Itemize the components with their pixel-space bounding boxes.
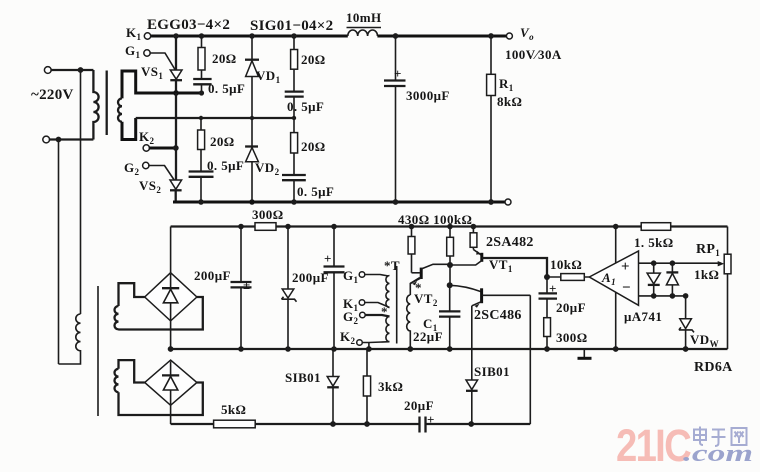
svg-text:*: * xyxy=(381,304,388,319)
capacitor 0.5uF snubber2 xyxy=(285,92,325,118)
wire opamp plus input xyxy=(639,262,722,264)
svg-text:VT1: VT1 xyxy=(489,257,513,274)
terminal G2 xyxy=(124,160,149,177)
pulse transformer terminal G1 xyxy=(343,268,365,285)
wire G1 gate xyxy=(149,53,175,70)
terminal G1 xyxy=(125,43,150,60)
svg-text:20μF: 20μF xyxy=(556,300,586,315)
wire mains drop left xyxy=(58,140,60,365)
transformer T1 primary xyxy=(93,70,98,140)
wire G2 gate xyxy=(148,166,174,181)
svg-text:3000μF: 3000μF xyxy=(406,88,450,103)
wire rail secondary lower xyxy=(136,117,296,119)
svg-text:+: + xyxy=(427,412,435,427)
transformer T1 core xyxy=(106,71,108,136)
svg-text:RP1: RP1 xyxy=(696,242,720,258)
svg-text:3kΩ: 3kΩ xyxy=(378,379,403,394)
svg-text:EGG03−4×2: EGG03−4×2 xyxy=(147,17,230,33)
terminal K2 xyxy=(139,129,155,151)
svg-text:8kΩ: 8kΩ xyxy=(497,94,522,109)
capacitor 200uF no1 xyxy=(194,227,252,350)
svg-text:21IC: 21IC xyxy=(616,420,691,471)
resistor 20ohm snubber1 xyxy=(198,36,237,79)
svg-text:+: + xyxy=(324,251,332,266)
svg-text:K2: K2 xyxy=(340,329,356,346)
ground xyxy=(578,349,592,358)
svg-text:Vo: Vo xyxy=(520,25,534,42)
svg-text:2SA482: 2SA482 xyxy=(486,235,534,250)
svg-text:VS1: VS1 xyxy=(141,64,163,81)
pulse transformer winding a xyxy=(386,276,390,308)
transformer T2 secondary1 top lead xyxy=(119,283,145,306)
svg-text:1kΩ: 1kΩ xyxy=(694,267,719,282)
potentiometer RP1 xyxy=(694,227,731,350)
svg-text:VT2: VT2 xyxy=(414,291,438,308)
svg-text:VS2: VS2 xyxy=(139,178,161,195)
wire bottom aux rail xyxy=(171,423,531,425)
node mains top xyxy=(78,67,84,73)
svg-text:200μF: 200μF xyxy=(292,270,329,285)
svg-text:*T: *T xyxy=(384,258,400,273)
svg-text:+: + xyxy=(394,66,402,81)
terminal 220V top xyxy=(44,67,93,74)
resistor 20ohm snubber3 xyxy=(198,118,235,172)
wire K1 to winding xyxy=(364,303,389,308)
svg-text:VD2: VD2 xyxy=(255,160,280,177)
thyristor VS2 xyxy=(139,93,182,202)
svg-text:SIB01: SIB01 xyxy=(285,370,321,385)
wire B2 minus down xyxy=(170,405,172,424)
transformer T1 secondary winding xyxy=(118,98,122,121)
svg-text:SIB01: SIB01 xyxy=(474,364,510,379)
diode VD2 xyxy=(245,118,279,202)
wire mains drop right xyxy=(80,70,82,314)
pulse transformer terminal G2 xyxy=(343,309,365,326)
svg-text:0. 5μF: 0. 5μF xyxy=(207,158,244,173)
wire B1 plus up xyxy=(170,227,172,273)
wire G2 to winding xyxy=(365,315,390,317)
svg-text:SIG01−04×2: SIG01−04×2 xyxy=(250,18,333,34)
diode limiter b xyxy=(666,263,678,296)
wire G1 to winding xyxy=(364,275,388,277)
watermark dianziwang xyxy=(694,427,747,447)
wire VT1 collector node xyxy=(544,274,550,280)
resistor 20ohm snubber4 xyxy=(291,118,326,175)
svg-text:20Ω: 20Ω xyxy=(210,134,235,149)
pulse transformer winding c xyxy=(407,295,411,349)
svg-text:~220V: ~220V xyxy=(31,87,74,103)
svg-text:2SC486: 2SC486 xyxy=(474,308,522,323)
node mains bottom xyxy=(56,137,62,143)
capacitor 3000uF xyxy=(384,36,450,202)
svg-text:0. 5μF: 0. 5μF xyxy=(208,81,245,96)
resistor 5kohm xyxy=(214,402,256,428)
zener diode regulator xyxy=(282,227,297,350)
transistor VT1 xyxy=(450,250,547,278)
transformer T2 aux primary winding xyxy=(59,314,81,364)
svg-text:G1: G1 xyxy=(125,43,141,60)
svg-text:VD1: VD1 xyxy=(256,68,281,85)
thyristor VS1 xyxy=(141,36,182,93)
svg-text:G2: G2 xyxy=(124,160,140,177)
wire opamp minus input xyxy=(639,295,687,297)
transistor VT2 xyxy=(410,264,450,285)
svg-text:10mH: 10mH xyxy=(346,10,382,25)
transformer T2 secondary1 bottom lead xyxy=(119,297,203,330)
diode limiter a xyxy=(647,263,660,296)
capacitor 0.5uF snubber1 xyxy=(193,79,245,96)
wire 2SC486 collector drop xyxy=(529,295,531,424)
svg-text:20Ω: 20Ω xyxy=(212,51,237,66)
svg-text:+: + xyxy=(621,259,630,275)
svg-text:1. 5kΩ: 1. 5kΩ xyxy=(634,235,674,250)
svg-text:K1: K1 xyxy=(126,25,142,42)
resistor 300ohm opamp xyxy=(544,318,588,349)
wire K2 to winding and rail xyxy=(362,342,390,349)
wire VS1 cathode to snubber xyxy=(176,92,202,95)
bridge rectifier B1 xyxy=(145,273,197,321)
node VT1 base xyxy=(447,262,453,268)
node VS1 cathode xyxy=(173,33,179,39)
wire B1 minus down xyxy=(170,321,172,349)
svg-text:0. 5μF: 0. 5μF xyxy=(297,184,334,199)
resistor R1 8k xyxy=(487,36,523,202)
wire regulator top rail xyxy=(171,225,728,227)
capacitor 20uF opamp xyxy=(539,277,586,318)
resistor 20ohm snubber2 xyxy=(291,36,326,92)
svg-text:+: + xyxy=(549,281,557,296)
resistor 1.5kohm xyxy=(634,223,674,250)
svg-text:20Ω: 20Ω xyxy=(301,139,326,154)
node 2SC486 base xyxy=(447,282,453,288)
wire top rail K1 bus xyxy=(150,35,509,38)
pulse transformer core xyxy=(396,266,398,344)
wire VT2 collector drop xyxy=(449,265,451,285)
svg-text:−: − xyxy=(622,280,631,296)
terminal out bottom xyxy=(505,199,511,205)
svg-text:20Ω: 20Ω xyxy=(301,52,326,67)
transformer T2 secondary2 top lead xyxy=(119,360,145,382)
resistor collector VT1 xyxy=(470,227,477,250)
resistor 10kohm xyxy=(547,257,589,280)
svg-text:430Ω 100kΩ: 430Ω 100kΩ xyxy=(398,212,472,227)
terminal K1 xyxy=(126,25,151,42)
transformer T1 secondary bottom lead xyxy=(122,118,136,140)
svg-text:10kΩ: 10kΩ xyxy=(550,257,582,272)
resistor 430ohm xyxy=(408,227,415,273)
svg-text:μA741: μA741 xyxy=(624,309,662,324)
resistor 100kohm xyxy=(447,227,454,266)
capacitor 20uF series xyxy=(404,398,435,433)
svg-text:RD6A: RD6A xyxy=(694,360,733,375)
transformer T1 secondary top lead xyxy=(122,71,176,98)
svg-text:5kΩ: 5kΩ xyxy=(221,402,246,417)
svg-text:300Ω: 300Ω xyxy=(252,207,284,222)
svg-text:±: ± xyxy=(243,277,251,292)
wire mid rail xyxy=(171,348,728,350)
capacitor 200uF no2 xyxy=(292,227,345,350)
svg-text:K2: K2 xyxy=(139,129,155,146)
op-amp A1 uA741 xyxy=(589,251,662,324)
svg-text:200μF: 200μF xyxy=(194,268,231,283)
pulse transformer terminal K1 xyxy=(343,296,365,313)
pulse transformer winding b xyxy=(386,317,390,342)
resistor 300ohm series xyxy=(252,207,284,230)
transformer T2 secondary1 winding xyxy=(115,306,119,329)
capacitor C1 22uF xyxy=(413,285,460,349)
inductor 10mH xyxy=(346,10,382,36)
transistor 2SC486 xyxy=(450,285,531,323)
transformer T2 secondary2 winding xyxy=(115,369,119,392)
transformer T2 secondary2 bottom lead xyxy=(119,383,203,416)
svg-text:300Ω: 300Ω xyxy=(556,330,588,345)
terminal Vo xyxy=(505,25,562,62)
wire winding c to VT2 emitter xyxy=(410,278,420,296)
capacitor 0.5uF snubber4 xyxy=(282,175,334,202)
svg-text:100V∕30A: 100V∕30A xyxy=(505,47,562,62)
svg-text:VDW: VDW xyxy=(690,332,719,349)
svg-text:22μF: 22μF xyxy=(413,329,443,344)
diode SIB01 a xyxy=(285,349,339,424)
wire opamp supply xyxy=(615,227,617,350)
wiper arrow RP1 xyxy=(718,261,725,266)
capacitor 0.5uF snubber3 xyxy=(189,158,245,202)
diode VD1 xyxy=(245,36,281,118)
svg-text:0. 5μF: 0. 5μF xyxy=(287,99,324,114)
resistor 3kohm xyxy=(363,349,403,424)
svg-text:G1: G1 xyxy=(343,268,359,285)
wire 2SC486 emitter drop xyxy=(471,306,473,380)
wire bottom rail of SCR section xyxy=(173,201,508,204)
svg-text:.com: .com xyxy=(683,441,753,467)
pulse transformer terminal K2 xyxy=(340,329,362,346)
zener VDW xyxy=(679,296,719,349)
transformer T2 core xyxy=(97,286,99,416)
wire K2 xyxy=(149,147,176,150)
svg-text:R1: R1 xyxy=(499,76,514,93)
terminal 220V bottom xyxy=(43,136,94,143)
diode SIB01 b xyxy=(466,364,510,424)
svg-text:20μF: 20μF xyxy=(404,398,434,413)
bridge rectifier B2 xyxy=(145,360,197,405)
